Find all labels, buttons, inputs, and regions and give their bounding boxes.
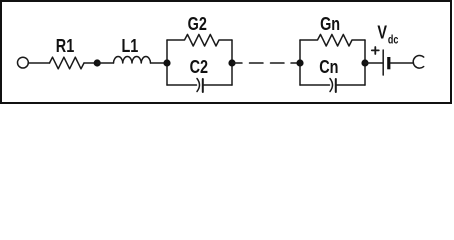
junction dot <box>228 59 235 66</box>
terminal T1 (left) <box>18 57 29 68</box>
junction dot <box>296 59 303 66</box>
battery Vdc <box>372 22 399 75</box>
capacitor C2 <box>167 56 232 92</box>
wire (left rail of Gn/Cn block) <box>299 40 301 85</box>
wire (dashed continuation) <box>232 62 300 64</box>
svg-text:L1: L1 <box>121 35 138 56</box>
resistor Gn <box>300 13 365 46</box>
svg-text:C2: C2 <box>190 56 208 77</box>
svg-text:Cn: Cn <box>319 56 338 77</box>
wire (right rail of G2/C2 block) <box>231 40 233 85</box>
wire <box>97 62 113 64</box>
inductor L1 <box>114 35 151 63</box>
junction dot <box>361 59 368 66</box>
wire <box>151 62 168 64</box>
svg-text:Gn: Gn <box>320 13 340 34</box>
capacitor Cn <box>300 56 365 92</box>
wire <box>365 62 383 64</box>
svg-text:R1: R1 <box>56 35 74 56</box>
resistor R1 <box>50 35 85 69</box>
wire (right rail of Gn/Cn block) <box>364 40 366 85</box>
svg-text:G2: G2 <box>188 13 207 34</box>
wire (left rail of G2/C2 block) <box>166 40 168 85</box>
terminal T2 (right, open) <box>413 55 423 68</box>
resistor G2 <box>167 13 232 46</box>
svg-text:dc: dc <box>388 34 399 46</box>
svg-text:V: V <box>377 22 387 43</box>
wire <box>29 62 50 64</box>
wire <box>84 62 97 64</box>
junction dot <box>163 59 170 66</box>
wire <box>390 62 413 64</box>
junction dot <box>94 59 101 66</box>
